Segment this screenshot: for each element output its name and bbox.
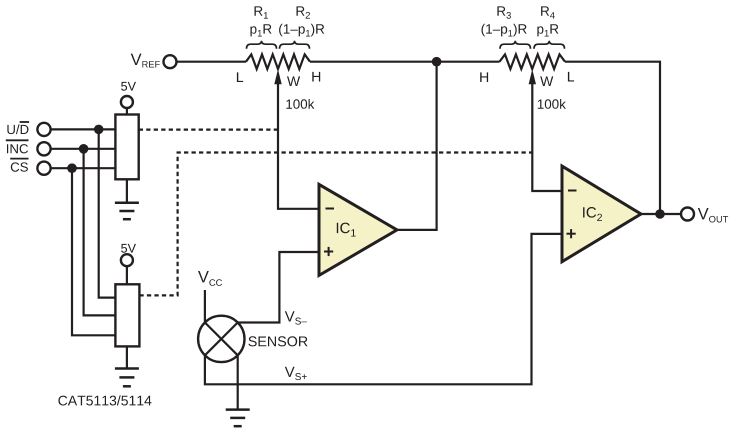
wire dashed upper block to wiper W1 <box>139 129 278 131</box>
op-amp IC1 <box>319 184 397 275</box>
label 5V lower <box>121 244 136 253</box>
label CAT5113/5114 <box>58 395 151 405</box>
node INC junction dot <box>79 144 89 154</box>
node VREF terminal <box>164 55 177 68</box>
label VS+ <box>285 367 307 380</box>
label VS- <box>285 311 307 324</box>
wire INC branch to lower block <box>84 149 116 316</box>
wire INC to upper block <box>51 148 116 150</box>
label R3 <box>497 6 511 18</box>
overline of INC label <box>6 139 29 141</box>
wiper W1 arrowhead <box>274 69 281 84</box>
IC2 minus pin mark <box>568 190 577 192</box>
label (1-p1)R of R2 <box>279 24 324 37</box>
label R2 <box>297 6 311 18</box>
wire CS branch to lower block <box>72 168 115 335</box>
label p1R of R1 <box>251 24 272 36</box>
label 5V upper <box>121 82 136 91</box>
node 5V terminal lower <box>121 254 133 266</box>
label p1R of R4 <box>537 24 558 36</box>
label (1-p1)R of R3 <box>482 24 527 37</box>
overline of CS label <box>10 158 28 160</box>
label R1 <box>255 6 269 18</box>
wire dashed lower block to wiper W2 <box>139 153 531 296</box>
node output junction dot <box>655 209 665 219</box>
label IC1 <box>337 223 356 237</box>
brace over R2 <box>280 41 310 49</box>
digital pot control chip upper block <box>115 115 138 180</box>
ground under sensor <box>226 410 250 427</box>
wiper W2 arrowhead <box>529 69 536 84</box>
wire U/D to upper block <box>51 128 116 130</box>
brace over R1 <box>247 41 277 49</box>
label CS <box>11 162 28 171</box>
node CS junction dot <box>67 163 77 173</box>
node A junction dot <box>432 57 442 67</box>
brace over R4 <box>534 41 565 49</box>
IC2 plus pin mark <box>567 229 576 238</box>
node U/D terminal <box>37 123 50 136</box>
overline of D in U/D label <box>20 121 30 123</box>
label R4 <box>541 6 555 18</box>
wire U/D branch to lower block <box>99 129 116 297</box>
node 5V terminal upper <box>121 96 133 108</box>
wire CS to upper block <box>51 167 116 169</box>
label VOUT <box>698 208 728 223</box>
label L pot1 <box>237 72 243 82</box>
digital pot control chip lower block <box>115 284 139 346</box>
label VCC <box>198 271 222 286</box>
label 100k pot2 <box>538 99 566 109</box>
label H pot2 <box>480 72 488 82</box>
IC1 minus pin mark <box>326 208 335 210</box>
node INC terminal <box>37 142 50 155</box>
ground under upper block <box>126 179 128 203</box>
label SENSOR <box>248 336 307 346</box>
potentiometer R3/R4 body <box>500 54 566 69</box>
wire wiper W2 to IC2 inverting input <box>532 80 562 191</box>
label INC <box>7 144 28 153</box>
wire R4 L-end to output node <box>565 62 660 214</box>
wire R1 H-end to junction A <box>310 61 500 63</box>
label W pot1 <box>287 76 300 86</box>
brace over R3 <box>500 41 531 49</box>
wire VREF to R1 <box>177 61 246 63</box>
potentiometer R1/R2 body <box>246 54 310 69</box>
op-amp IC2 <box>562 166 641 262</box>
IC1 plus pin mark <box>324 247 333 256</box>
label VREF <box>131 54 160 68</box>
label H pot1 <box>312 72 320 82</box>
wire sensor VS- to IC1 noninverting input <box>238 252 319 323</box>
ground under lower block <box>126 346 128 368</box>
label 100k pot1 <box>286 99 314 109</box>
wire IC2 output to VOUT <box>641 213 681 215</box>
label IC2 <box>583 207 602 221</box>
node U/D junction dot <box>94 125 104 135</box>
wire sensor to ground <box>237 355 239 409</box>
node CS terminal <box>37 162 50 175</box>
wire wiper W1 to IC1 inverting input <box>278 80 319 209</box>
sensor lamp symbol <box>198 316 244 362</box>
label U/D <box>7 124 28 134</box>
label L pot2 <box>568 72 574 82</box>
wire VS+ rail from sensor to IC2 noninverting input <box>205 234 562 384</box>
wire IC1 output to junction A <box>397 62 437 230</box>
wire VCC to sensor <box>204 290 206 323</box>
label W pot2 <box>540 76 553 86</box>
node VOUT terminal <box>681 208 694 221</box>
